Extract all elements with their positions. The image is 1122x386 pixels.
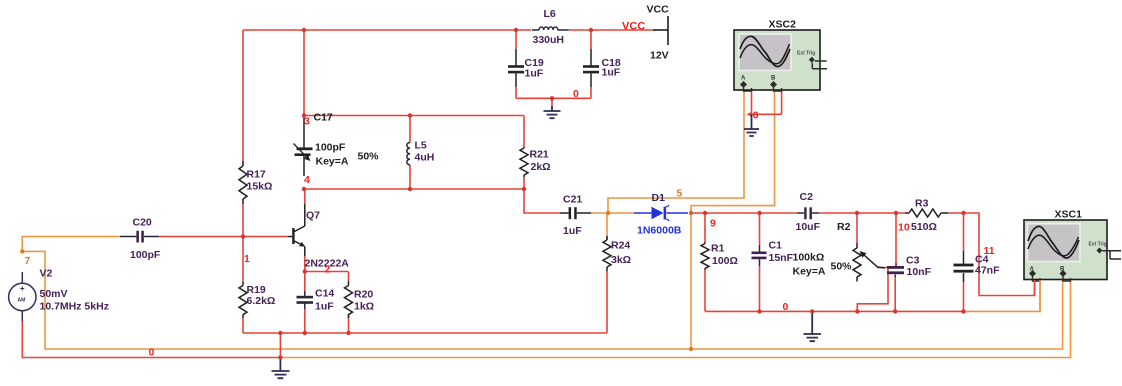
junction node 4 L5 bottom xyxy=(408,187,412,191)
svg-text:B: B xyxy=(771,76,776,82)
svg-text:100pF: 100pF xyxy=(130,249,161,261)
svg-text:4: 4 xyxy=(304,174,310,186)
junction rail y333 R20 xyxy=(346,331,350,335)
junction rail y333 C14 xyxy=(303,331,307,335)
wire bottom rail y333 xyxy=(243,332,607,334)
svg-text:1: 1 xyxy=(244,253,250,265)
junction dot diode out xyxy=(689,211,693,215)
svg-text:9: 9 xyxy=(710,218,716,230)
wire XSC2 A- red to ground xyxy=(751,89,753,114)
wire C19 C18 verticals red parts xyxy=(516,30,591,98)
svg-text:R17: R17 xyxy=(247,169,266,181)
potentiometer R2 wiper arrowhead xyxy=(860,251,867,258)
svg-text:C14: C14 xyxy=(315,288,334,300)
svg-text:7: 7 xyxy=(25,255,31,267)
wire R2 wiper to rail xyxy=(857,268,888,312)
svg-text:D1: D1 xyxy=(652,192,666,204)
capacitor C1 xyxy=(752,245,767,266)
ground under XSC2 xyxy=(744,114,759,136)
resistor R1 xyxy=(701,242,709,270)
wire net3 y115 horizontal xyxy=(304,115,524,117)
svg-text:4uH: 4uH xyxy=(415,152,435,164)
svg-text:47nF: 47nF xyxy=(975,265,1000,277)
svg-text:2: 2 xyxy=(325,264,331,276)
VCC power symbol xyxy=(647,4,670,62)
svg-text:10nF: 10nF xyxy=(907,266,932,278)
junction node 3 L5 top xyxy=(408,113,412,117)
wire R20 bottom xyxy=(348,314,350,333)
svg-text:10: 10 xyxy=(898,222,910,234)
svg-text:50mV: 50mV xyxy=(40,288,68,300)
svg-text:R21: R21 xyxy=(530,149,549,161)
wire XSC2 B- red xyxy=(750,89,782,114)
svg-text:R20: R20 xyxy=(354,289,373,301)
wire C17 top vertical x304 xyxy=(303,30,305,117)
junction node 1 base xyxy=(241,234,245,238)
svg-text:3: 3 xyxy=(304,116,310,128)
wire net9 red y213 xyxy=(691,212,797,214)
svg-text:1uF: 1uF xyxy=(315,301,334,313)
wire R19 bottom to rail xyxy=(242,318,244,333)
wire C20 left orange xyxy=(22,237,120,252)
wire net4 to C21 red y213 xyxy=(559,212,561,214)
resistor R3 xyxy=(905,209,948,217)
svg-text:100pF: 100pF xyxy=(315,142,346,154)
resistor R21 xyxy=(520,147,528,177)
svg-text:0: 0 xyxy=(149,347,155,359)
variable capacitor C17 xyxy=(294,117,313,176)
ground under C19 C18 xyxy=(544,106,561,118)
junction rail y311 C1 xyxy=(757,309,761,313)
svg-text:VCC: VCC xyxy=(622,21,645,33)
svg-text:R1: R1 xyxy=(711,243,725,255)
resistor R20 xyxy=(345,281,353,318)
wire ground stem x280 xyxy=(279,333,281,358)
svg-text:2kΩ: 2kΩ xyxy=(531,161,551,173)
capacitor C2 xyxy=(797,207,819,219)
svg-text:XSC2: XSC2 xyxy=(769,19,797,31)
svg-text:A: A xyxy=(741,76,746,82)
svg-text:11: 11 xyxy=(984,245,995,257)
junction rail y311 ground xyxy=(810,309,814,313)
wire base net1 y236.5 xyxy=(159,236,288,238)
svg-text:100kΩ: 100kΩ xyxy=(793,252,825,264)
junction cap ground rail xyxy=(550,96,554,100)
svg-text:1uF: 1uF xyxy=(563,225,582,237)
inductor L6 xyxy=(532,27,569,30)
diode D1 xyxy=(634,205,688,221)
svg-text:R24: R24 xyxy=(611,240,630,252)
svg-text:1uF: 1uF xyxy=(602,67,621,79)
svg-text:10.7MHz 5kHz: 10.7MHz 5kHz xyxy=(40,301,109,313)
svg-text:10uF: 10uF xyxy=(796,221,821,233)
resistor R24 xyxy=(603,213,611,271)
wire x243 between R17 and R19 xyxy=(242,204,244,282)
wire R21 bottom to C21 xyxy=(524,177,560,213)
svg-text:C20: C20 xyxy=(133,217,152,229)
net0 arrowhead XSC2 xyxy=(747,112,753,117)
junction node 4 C17 bottom xyxy=(302,187,306,191)
svg-text:R2: R2 xyxy=(837,221,851,233)
svg-text:R3: R3 xyxy=(915,198,929,210)
junction top rail / C18 xyxy=(589,28,593,32)
wire cap ground rail y98 xyxy=(516,97,591,99)
svg-text:V2: V2 xyxy=(40,268,53,280)
wire C3 branch xyxy=(894,213,897,311)
wire net10 y213 R3 to corner down to XSC1 A+ xyxy=(948,213,1035,296)
svg-text:510Ω: 510Ω xyxy=(911,221,937,233)
svg-text:0: 0 xyxy=(573,88,579,100)
junction node 2 emitter xyxy=(303,269,307,273)
junction rail y311 C4 xyxy=(961,309,965,313)
svg-text:C17: C17 xyxy=(314,112,333,124)
wire rail y311 orange to XSC1 A- xyxy=(964,278,1041,311)
capacitor C19 xyxy=(508,49,524,87)
wire VCC lead black xyxy=(653,29,668,31)
potentiometer R2 xyxy=(853,243,885,282)
junction top rail / C19 xyxy=(514,28,518,32)
junction top rail / C17 branch xyxy=(302,28,306,32)
capacitor C3 xyxy=(887,263,904,277)
resistor R19 xyxy=(239,282,247,318)
wire stub ground C19 xyxy=(551,98,553,106)
wire collector to net4 xyxy=(304,189,306,204)
junction node 9 R2 xyxy=(855,211,859,215)
source V2 xyxy=(9,272,36,322)
svg-text:0: 0 xyxy=(753,110,759,122)
junction node 3 C17 top xyxy=(302,113,306,117)
svg-text:3kΩ: 3kΩ xyxy=(611,254,631,266)
wire net5 orange to XSC2 A+ xyxy=(608,89,744,213)
wire top rail net3 right of L6 xyxy=(569,29,653,31)
OSCILLOSCOPE XSC2 xyxy=(734,30,827,91)
svg-text:Key=A: Key=A xyxy=(793,266,826,278)
svg-text:1uF: 1uF xyxy=(525,68,544,80)
svg-text:L5: L5 xyxy=(415,140,427,152)
wire net0 orange to XSC1 B- xyxy=(280,278,1070,358)
junction node 4 R21 bottom xyxy=(522,187,526,191)
svg-text:XSC1: XSC1 xyxy=(1055,209,1083,221)
junction rail y311 C3 xyxy=(893,309,897,313)
junction dot net5 xyxy=(606,211,610,215)
wire C14 bottom xyxy=(304,309,306,333)
svg-text:C21: C21 xyxy=(563,194,582,206)
junction node 10 C4 xyxy=(961,211,965,215)
wire left rail x243 upper xyxy=(242,30,244,161)
wire net7 orange to XSC1 B+ xyxy=(22,251,1062,349)
wire R21 top lead xyxy=(523,116,525,148)
wire node2 emitter net xyxy=(305,256,349,291)
junction rail y311 wiper step xyxy=(855,309,859,313)
wire top rail net3 left xyxy=(243,29,531,31)
capacitor C4 xyxy=(954,251,974,282)
svg-text:AM: AM xyxy=(18,298,26,304)
svg-text:15kΩ: 15kΩ xyxy=(247,181,273,193)
wire net9 y213 C2 to R3 xyxy=(819,212,905,214)
svg-text:C3: C3 xyxy=(906,255,920,267)
svg-text:50%: 50% xyxy=(831,261,853,273)
inductor L5 xyxy=(407,116,410,190)
junction node 9 R1 xyxy=(703,211,707,215)
junction dot net7 xyxy=(20,249,24,253)
wire C21 to D1 orange xyxy=(591,212,634,214)
capacitor C14 xyxy=(297,291,314,309)
svg-text:Key=A: Key=A xyxy=(316,156,349,168)
svg-text:1N6000B: 1N6000B xyxy=(637,225,682,237)
wire V2 bottom red net0 xyxy=(22,322,280,358)
wire C4 branch xyxy=(963,213,965,311)
svg-text:0: 0 xyxy=(783,301,789,313)
junction rail y333 ground stem xyxy=(278,331,282,335)
wire R1 branch xyxy=(704,213,706,311)
wire R2 top lead xyxy=(856,213,858,243)
svg-text:15nF: 15nF xyxy=(769,252,794,264)
transistor Q7 emitter arrow xyxy=(299,242,305,247)
svg-text:5: 5 xyxy=(677,188,683,200)
capacitor C21 xyxy=(560,207,591,219)
svg-text:Q7: Q7 xyxy=(306,210,320,222)
OSCILLOSCOPE XSC1 xyxy=(1024,220,1121,311)
svg-text:C2: C2 xyxy=(800,191,814,203)
wire net9 orange XSC2 B+ down to rail xyxy=(691,89,775,349)
wire C1 branch xyxy=(759,213,761,311)
capacitor C20 xyxy=(120,231,159,243)
transistor Q7 xyxy=(288,204,305,256)
svg-text:100Ω: 100Ω xyxy=(712,255,738,267)
svg-text:6.2kΩ: 6.2kΩ xyxy=(247,295,276,307)
svg-text:Ext Trig: Ext Trig xyxy=(797,51,815,57)
svg-text:VCC: VCC xyxy=(647,4,670,16)
capacitor C18 xyxy=(583,49,599,87)
wire R24 bottom to rail xyxy=(606,271,608,333)
junction node 9 C1 xyxy=(757,211,761,215)
svg-text:1kΩ: 1kΩ xyxy=(354,301,374,313)
wire net4 y189 horizontal xyxy=(304,188,524,190)
ground bottom left xyxy=(272,358,290,379)
resistor R17 xyxy=(239,161,247,204)
junction net 0 ground xyxy=(278,355,282,359)
svg-text:50%: 50% xyxy=(358,151,380,163)
wire bottom rail y311 red xyxy=(705,310,964,312)
svg-text:L6: L6 xyxy=(544,8,556,20)
svg-text:12V: 12V xyxy=(650,50,669,62)
svg-text:C1: C1 xyxy=(769,240,783,252)
ground right section xyxy=(804,311,822,341)
svg-text:Ext Trig: Ext Trig xyxy=(1089,242,1107,248)
svg-text:330uH: 330uH xyxy=(533,34,565,46)
junction node 10 C3 xyxy=(894,211,898,215)
junction dot orange rail xyxy=(689,347,693,351)
